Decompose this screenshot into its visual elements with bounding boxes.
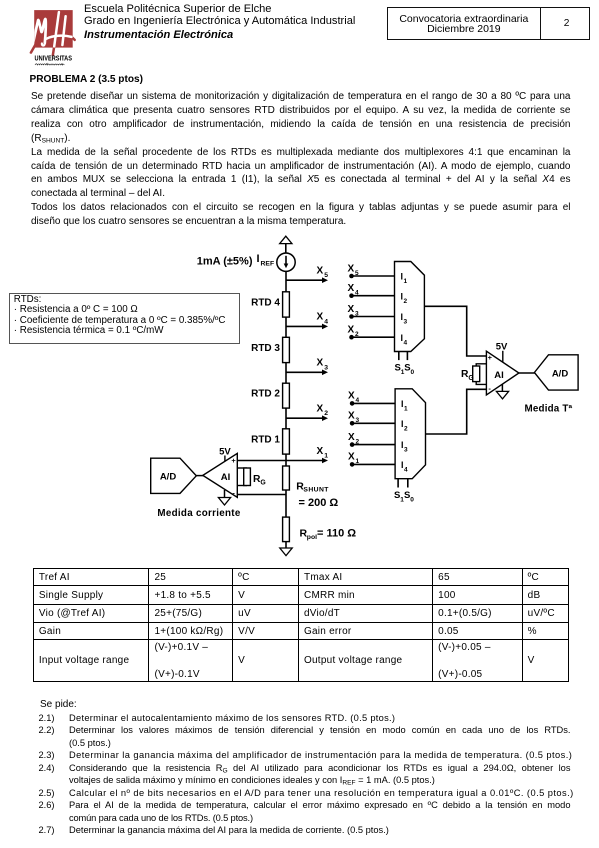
label X1 bbox=[317, 446, 329, 460]
resistor RTD 4 bbox=[283, 292, 290, 317]
svg-text:+: + bbox=[231, 456, 236, 465]
svg-text:1: 1 bbox=[404, 406, 408, 413]
svg-text:RTD 1: RTD 1 bbox=[251, 434, 280, 445]
wire RTD2-RTD1 bbox=[285, 408, 287, 429]
svg-text:X: X bbox=[348, 452, 355, 463]
svg-text:X: X bbox=[348, 304, 355, 315]
multiplexer U1 (upper 4:1 MUX) bbox=[395, 262, 425, 352]
multiplexer U2 (lower 4:1 MUX) bbox=[395, 389, 425, 479]
svg-text:4: 4 bbox=[355, 290, 359, 297]
svg-text:2: 2 bbox=[404, 298, 408, 305]
svg-text:= 110 Ω: = 110 Ω bbox=[317, 527, 356, 539]
power supply symbol VCC bbox=[280, 236, 292, 253]
svg-text:1: 1 bbox=[324, 453, 328, 460]
svg-text:A/D: A/D bbox=[552, 369, 569, 380]
5V supply (right AI) bbox=[496, 342, 508, 363]
svg-text:= 200 Ω: = 200 Ω bbox=[299, 497, 339, 509]
svg-text:3: 3 bbox=[404, 447, 408, 454]
svg-text:4: 4 bbox=[356, 397, 360, 404]
header box bbox=[387, 7, 591, 40]
svg-text:SHUNT: SHUNT bbox=[303, 487, 329, 494]
select pins S1 S0 (U1) bbox=[395, 352, 415, 377]
RTDs data box bbox=[9, 293, 240, 344]
wire: current source to node X5 bbox=[285, 271, 287, 291]
logo UMH bbox=[25, 5, 85, 69]
svg-text:X: X bbox=[317, 266, 324, 277]
svg-text:AI: AI bbox=[221, 472, 231, 483]
A/D converter (temperature) bbox=[534, 355, 578, 390]
svg-text:0: 0 bbox=[411, 369, 415, 376]
node X5 tap wire bbox=[286, 277, 328, 283]
svg-text:3: 3 bbox=[355, 310, 359, 317]
svg-text:RTD 2: RTD 2 bbox=[251, 389, 280, 400]
op-amp AI (temperature) bbox=[486, 351, 519, 395]
svg-text:1mA (±5%): 1mA (±5%) bbox=[197, 255, 253, 267]
svg-text:2: 2 bbox=[404, 425, 408, 432]
wire RTD1 - RSHUNT through node X1 bbox=[285, 454, 287, 466]
wire U2 output to right AI - bbox=[426, 389, 487, 434]
svg-text:X: X bbox=[317, 312, 324, 323]
svg-text:AI: AI bbox=[494, 370, 504, 381]
node X3 tap wire bbox=[286, 370, 328, 376]
svg-text:X: X bbox=[348, 432, 355, 443]
svg-text:I: I bbox=[257, 253, 260, 265]
title bbox=[30, 73, 143, 87]
node X4 tap wire bbox=[286, 324, 328, 330]
svg-text:2: 2 bbox=[356, 438, 360, 445]
node X2 tap wire bbox=[286, 415, 328, 421]
svg-text:Medida Tª: Medida Tª bbox=[525, 403, 573, 414]
select pins S1 S0 (U2) bbox=[394, 479, 414, 504]
node X1 wire: AI+ to arrow bbox=[237, 458, 328, 464]
node X4 input to U1.I2 bbox=[348, 283, 395, 298]
wire RTD3-RTD2 bbox=[285, 363, 287, 384]
header text bbox=[84, 3, 271, 16]
label Rpol = 110 Ohm bbox=[300, 527, 357, 541]
node X5 input to U1.I1 bbox=[348, 263, 395, 278]
wire RTD4-RTD3 bbox=[285, 317, 287, 337]
svg-text:5: 5 bbox=[324, 272, 328, 279]
svg-text:2: 2 bbox=[355, 331, 359, 338]
resistor RSHUNT bbox=[283, 466, 290, 490]
svg-text:5V: 5V bbox=[496, 342, 508, 353]
label X3 bbox=[317, 358, 329, 372]
svg-text:1: 1 bbox=[356, 458, 360, 465]
svg-text:Medida corriente: Medida corriente bbox=[157, 508, 240, 519]
svg-text:4: 4 bbox=[404, 467, 408, 474]
resistor RG (right AI) bbox=[461, 364, 486, 385]
svg-text:RTD 3: RTD 3 bbox=[251, 343, 280, 354]
node X3 input to U1.I3 bbox=[348, 304, 395, 319]
label RSHUNT = 200 Ohm bbox=[296, 481, 338, 510]
label X5 bbox=[317, 266, 329, 280]
wire: RSHUNT bottom junction to AI- bbox=[237, 490, 286, 517]
svg-text:X: X bbox=[317, 358, 324, 369]
svg-text:2: 2 bbox=[324, 410, 328, 417]
svg-text:4: 4 bbox=[324, 318, 328, 325]
svg-text:pol: pol bbox=[307, 534, 317, 541]
op-amp AI (current) bbox=[203, 453, 238, 497]
svg-text:RTD 4: RTD 4 bbox=[251, 297, 280, 308]
svg-text:X: X bbox=[317, 446, 324, 457]
label X4 bbox=[317, 312, 329, 326]
svg-text:4: 4 bbox=[404, 339, 408, 346]
label X2 bbox=[317, 404, 329, 418]
svg-text:X: X bbox=[348, 325, 355, 336]
resistor RTD 1 bbox=[283, 429, 290, 454]
svg-text:REF: REF bbox=[261, 261, 275, 268]
node X2 input to U1.I4 bbox=[348, 325, 395, 340]
svg-text:3: 3 bbox=[404, 319, 408, 326]
wire AI apex to A/D bbox=[519, 372, 535, 374]
svg-text:1: 1 bbox=[404, 278, 408, 285]
resistor RTD 2 bbox=[283, 383, 290, 408]
wire U1 output to right AI + bbox=[424, 306, 486, 356]
wire A/D to AI apex bbox=[196, 475, 203, 477]
resistor RG (left AI) bbox=[237, 468, 265, 487]
current source IREF bbox=[277, 253, 295, 271]
ground (right AI) bbox=[496, 384, 508, 399]
svg-text:A/D: A/D bbox=[160, 472, 177, 483]
svg-text:X: X bbox=[348, 391, 355, 402]
svg-text:3: 3 bbox=[356, 417, 360, 424]
5V supply (left AI) bbox=[219, 446, 231, 461]
node X2 input to U2.I3 bbox=[348, 432, 395, 447]
ground (bottom of chain) bbox=[280, 542, 292, 556]
svg-text:X: X bbox=[348, 263, 355, 274]
node X3 input to U2.I2 bbox=[348, 411, 395, 426]
node X4 input to U2.I1 bbox=[348, 391, 395, 406]
resistor Rpol bbox=[283, 517, 290, 542]
svg-text:X: X bbox=[348, 283, 355, 294]
svg-text:0: 0 bbox=[410, 497, 414, 504]
label IREF bbox=[257, 253, 275, 268]
svg-text:G: G bbox=[468, 375, 473, 382]
A/D converter (current) bbox=[151, 458, 197, 493]
ground (left AI) bbox=[218, 490, 230, 505]
svg-text:X: X bbox=[317, 404, 324, 415]
svg-text:+: + bbox=[488, 353, 493, 362]
svg-text:X: X bbox=[348, 411, 355, 422]
svg-text:5: 5 bbox=[355, 270, 359, 277]
node X1 input to U2.I4 bbox=[348, 452, 395, 467]
resistor RTD 3 bbox=[283, 337, 290, 362]
svg-text:3: 3 bbox=[324, 364, 328, 371]
svg-text:G: G bbox=[260, 480, 265, 487]
